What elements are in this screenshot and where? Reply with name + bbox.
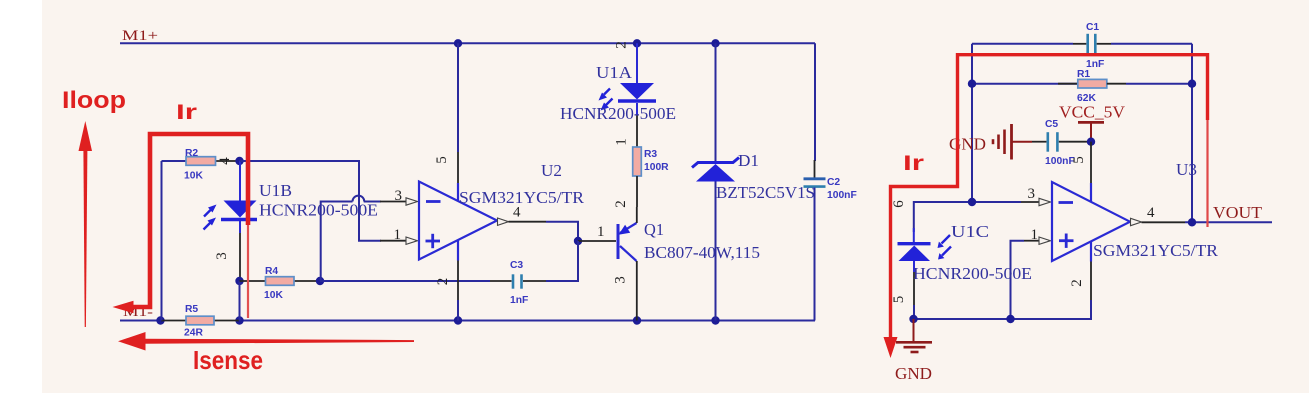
svg-text:24R: 24R xyxy=(184,328,203,339)
svg-text:HCNR200-500E: HCNR200-500E xyxy=(560,104,676,123)
wire GND to C5 xyxy=(1013,141,1047,143)
svg-text:5: 5 xyxy=(1071,156,1087,164)
junction R4 right xyxy=(316,277,324,285)
svg-text:Ir: Ir xyxy=(176,101,197,124)
svg-text:D1: D1 xyxy=(738,151,759,170)
svg-text:100nF: 100nF xyxy=(827,190,857,201)
wire U1B anode to pin1 xyxy=(240,161,382,241)
svg-text:GND: GND xyxy=(949,135,986,154)
svg-text:5: 5 xyxy=(891,296,907,304)
junction output node xyxy=(574,237,582,245)
transistor Q1 xyxy=(618,207,637,321)
svg-text:BC807-40W,115: BC807-40W,115 xyxy=(644,243,760,262)
resistor R4 xyxy=(240,266,321,301)
capacitor C3 xyxy=(490,260,546,306)
svg-text:U1A: U1A xyxy=(596,63,633,82)
svg-text:U3: U3 xyxy=(1176,160,1197,179)
wire base stub Q1 xyxy=(578,240,616,242)
junction bottom D1 xyxy=(711,316,719,324)
wire bottom rail right of R5 xyxy=(239,320,815,322)
photodiode U1A xyxy=(599,43,657,115)
svg-text:GND: GND xyxy=(895,364,932,383)
svg-text:5: 5 xyxy=(434,156,450,164)
capacitor C5 xyxy=(1045,119,1091,167)
svg-text:C2: C2 xyxy=(827,177,840,188)
junction top U1A xyxy=(633,39,641,47)
svg-text:2: 2 xyxy=(614,41,630,49)
svg-text:1: 1 xyxy=(597,224,605,240)
svg-text:U1B: U1B xyxy=(259,181,292,200)
junction bottom Q1 xyxy=(633,316,641,324)
svg-text:4: 4 xyxy=(217,157,233,165)
resistor R1 xyxy=(972,69,1192,104)
svg-text:R4: R4 xyxy=(265,266,278,277)
junction R2 right / U1B anode xyxy=(235,157,243,165)
svg-text:R5: R5 xyxy=(185,304,198,315)
wire left vertical right circuit xyxy=(971,44,973,202)
junction bottom right circuit xyxy=(909,315,917,323)
pin 5 power stub U2 xyxy=(457,43,459,201)
pin 4 output U3 xyxy=(1131,218,1142,225)
svg-text:3: 3 xyxy=(214,252,230,260)
wire right vertical right circuit xyxy=(1191,44,1193,223)
svg-text:SGM321YC5/TR: SGM321YC5/TR xyxy=(1093,241,1219,260)
wire U1B cathode to bottom xyxy=(239,281,241,321)
svg-text:2: 2 xyxy=(1069,279,1085,287)
svg-text:R3: R3 xyxy=(644,149,657,160)
wire U2 output xyxy=(509,222,579,241)
wire left vertical xyxy=(161,161,163,321)
svg-text:4: 4 xyxy=(513,205,521,221)
junction bottom op-amp xyxy=(454,316,462,324)
junction top op-amp power xyxy=(454,39,462,47)
junction R1 left xyxy=(968,80,976,88)
junction U1B cathode / R4 xyxy=(235,277,243,285)
svg-text:M1+: M1+ xyxy=(122,28,158,44)
pin 1 stub U3 xyxy=(1011,227,1051,319)
photodiode U1C xyxy=(898,235,952,319)
op-amp U2 xyxy=(419,182,497,260)
Iloop arrow xyxy=(79,121,93,327)
svg-text:Q1: Q1 xyxy=(644,220,664,239)
capacitor C1 xyxy=(972,22,1192,70)
svg-text:SGM321YC5/TR: SGM321YC5/TR xyxy=(459,188,585,207)
svg-text:U1C: U1C xyxy=(951,222,989,241)
svg-text:10K: 10K xyxy=(184,171,203,182)
junction R1 right xyxy=(1188,80,1196,88)
wire M1+ top rail xyxy=(120,42,815,44)
svg-text:100R: 100R xyxy=(644,162,669,173)
svg-text:C1: C1 xyxy=(1086,22,1099,33)
svg-text:6: 6 xyxy=(891,200,907,208)
resistor R2 xyxy=(162,148,241,182)
Isense arrow xyxy=(118,332,414,351)
junction bottom left xyxy=(156,316,164,324)
svg-text:U2: U2 xyxy=(541,161,562,180)
pin 5 power stub U3 xyxy=(1090,142,1092,183)
Ir loop wire left xyxy=(113,134,249,318)
svg-text:2: 2 xyxy=(435,278,451,286)
zener diode D1 xyxy=(692,43,739,320)
pin 1 stub U2 xyxy=(380,240,406,242)
junction pin3 wire xyxy=(968,198,976,206)
svg-text:1: 1 xyxy=(1031,227,1039,243)
junction top D1 xyxy=(711,39,719,47)
Ir loop wire right xyxy=(884,55,1208,358)
svg-text:Iloop: Iloop xyxy=(62,87,126,114)
svg-text:Isense: Isense xyxy=(193,345,263,375)
svg-text:3: 3 xyxy=(1028,186,1036,202)
svg-text:2: 2 xyxy=(613,200,629,208)
ground symbol bottom xyxy=(895,319,932,383)
svg-text:10K: 10K xyxy=(264,290,283,301)
capacitor C2 xyxy=(804,43,857,320)
pin 3 stub U2 xyxy=(380,201,406,203)
wire C3 to output node xyxy=(546,241,578,281)
svg-text:1: 1 xyxy=(394,227,402,243)
svg-text:VOUT: VOUT xyxy=(1213,203,1263,222)
junction pin1 riser xyxy=(1006,315,1014,323)
svg-text:3: 3 xyxy=(395,188,403,204)
pin 2 stub U2 xyxy=(457,241,459,321)
wire R4 to C3 xyxy=(320,280,490,282)
wire bottom rail left xyxy=(120,320,161,322)
svg-text:1nF: 1nF xyxy=(510,295,528,306)
svg-text:R2: R2 xyxy=(185,148,198,159)
op-amp U3 xyxy=(1052,182,1130,261)
svg-text:VCC_5V: VCC_5V xyxy=(1059,103,1126,122)
junction VCC node xyxy=(1087,138,1095,146)
pin 3 stub U3 xyxy=(1021,201,1039,203)
junction bottom R5 right xyxy=(235,316,243,324)
pin 2 stub U3 xyxy=(913,241,1091,319)
svg-text:4: 4 xyxy=(1147,205,1155,221)
svg-text:3: 3 xyxy=(613,276,629,284)
power VCC_5V xyxy=(1059,103,1126,142)
wire U1C anode to pin3 xyxy=(914,202,1021,232)
photodiode U1B xyxy=(204,161,258,281)
resistor R3 xyxy=(633,115,669,207)
wire VOUT xyxy=(1142,221,1273,223)
svg-text:BZT52C5V1S: BZT52C5V1S xyxy=(716,183,815,202)
svg-text:HCNR200-500E: HCNR200-500E xyxy=(259,201,378,220)
svg-text:R1: R1 xyxy=(1077,69,1090,80)
wire riser to op-amp pin3 with hop xyxy=(321,196,381,281)
resistor R5 xyxy=(161,304,239,339)
svg-text:C5: C5 xyxy=(1045,119,1058,130)
power GND symbol near C5 xyxy=(949,124,1012,160)
pin 4 output U2 xyxy=(498,218,509,225)
svg-text:Ir: Ir xyxy=(903,152,924,175)
svg-text:C3: C3 xyxy=(510,260,523,271)
svg-text:1: 1 xyxy=(614,138,630,146)
junction VOUT xyxy=(1188,218,1196,226)
svg-text:HCNR200-500E: HCNR200-500E xyxy=(913,264,1032,283)
